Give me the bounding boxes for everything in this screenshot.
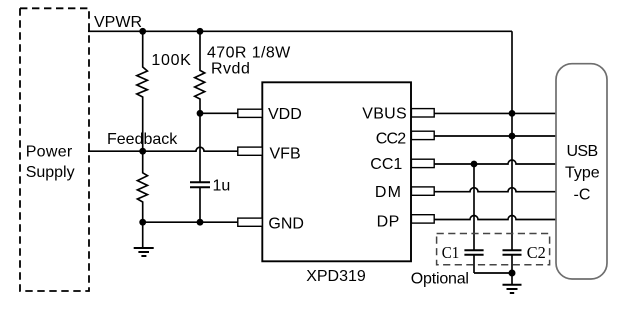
svg-text:USB: USB (566, 143, 597, 160)
svg-text:XPD319: XPD319 (306, 268, 366, 285)
svg-text:Rvdd: Rvdd (211, 61, 250, 78)
svg-text:C2: C2 (527, 243, 546, 262)
svg-text:Type: Type (565, 165, 600, 182)
svg-text:1u: 1u (213, 178, 231, 195)
svg-text:VBUS: VBUS (362, 106, 407, 123)
svg-text:470R 1/8W: 470R 1/8W (207, 44, 291, 61)
svg-text:Feedback: Feedback (107, 131, 178, 148)
svg-text:C1: C1 (442, 243, 460, 262)
svg-text:CC1: CC1 (370, 156, 402, 173)
svg-text:Supply: Supply (26, 164, 75, 181)
svg-text:100K: 100K (151, 52, 191, 69)
svg-text:CC2: CC2 (376, 131, 407, 148)
svg-text:VFB: VFB (270, 145, 301, 162)
svg-text:DP: DP (377, 214, 400, 231)
svg-text:Power: Power (26, 144, 73, 161)
svg-text:GND: GND (268, 215, 304, 232)
svg-text:Optional: Optional (411, 271, 469, 288)
svg-text:DM: DM (375, 184, 402, 201)
svg-text:-C: -C (574, 187, 591, 204)
svg-text:VPWR: VPWR (94, 14, 142, 31)
svg-text:VDD: VDD (268, 106, 302, 123)
